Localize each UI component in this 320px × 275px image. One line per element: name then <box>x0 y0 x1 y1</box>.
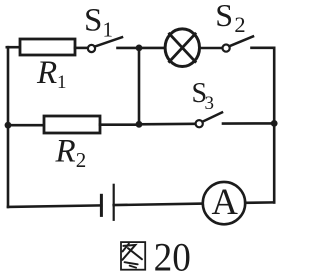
ammeter A1 circle <box>203 182 245 224</box>
wire: ammeter to bottom right corner <box>245 201 274 204</box>
node B junction dot <box>136 121 143 128</box>
caption hanzi TU (figure) drawn as strokes <box>121 242 145 270</box>
svg-text:2: 2 <box>76 148 87 172</box>
switch S1 blade <box>95 37 122 46</box>
lamp L1 circle <box>165 29 199 67</box>
svg-text:20: 20 <box>154 235 191 275</box>
switch S1 pivot <box>88 45 95 52</box>
label S2 <box>215 0 245 37</box>
wire: left vertical <box>7 47 10 207</box>
wire: node A to lamp <box>139 47 165 50</box>
switch S3 blade <box>202 112 222 121</box>
svg-text:A: A <box>212 181 239 222</box>
label R1 <box>36 55 67 93</box>
resistor R2 <box>44 116 100 133</box>
wire: S3 fixed contact to right rail <box>223 122 274 125</box>
svg-text:2: 2 <box>234 12 245 37</box>
svg-text:S: S <box>215 0 233 33</box>
label S3 <box>192 78 215 114</box>
lamp L1 cross <box>169 34 195 62</box>
label R2 <box>55 134 87 172</box>
wire: node B to S3 pivot <box>139 123 196 126</box>
wire: vertical link node A to node B <box>138 48 141 124</box>
node A junction dot <box>136 45 143 52</box>
wire: R1 to S1 pivot <box>75 47 88 50</box>
svg-text:3: 3 <box>205 93 215 114</box>
wire: battery to ammeter <box>114 204 203 206</box>
node C junction dot (left rail / middle branch) <box>5 122 12 129</box>
switch S3 pivot <box>196 120 203 127</box>
battery positive plate (long) <box>113 185 115 220</box>
wire: middle branch left rail to R2 <box>8 124 44 127</box>
svg-text:1: 1 <box>103 18 114 42</box>
svg-text:R: R <box>55 134 76 170</box>
battery negative plate (short) <box>100 195 103 215</box>
wire: R2 to node B <box>100 123 139 126</box>
wire: bottom left rail to battery <box>8 205 101 207</box>
svg-text:1: 1 <box>57 72 67 93</box>
wire: S2 fixed contact to right rail corner <box>252 46 275 49</box>
wire: lamp to S2 pivot <box>201 47 223 50</box>
switch S2 blade <box>229 36 253 46</box>
switch S2 pivot <box>223 45 230 52</box>
svg-text:S: S <box>84 3 102 39</box>
node D junction dot (right rail / middle branch) <box>271 120 278 127</box>
label S1 <box>84 3 113 42</box>
wire: top-left from left rail to R1 <box>7 46 20 49</box>
resistor R1 <box>20 39 75 55</box>
wire: S1 fixed contact to node A <box>118 47 140 50</box>
wire: right vertical rail <box>273 48 276 203</box>
svg-text:R: R <box>36 55 57 91</box>
